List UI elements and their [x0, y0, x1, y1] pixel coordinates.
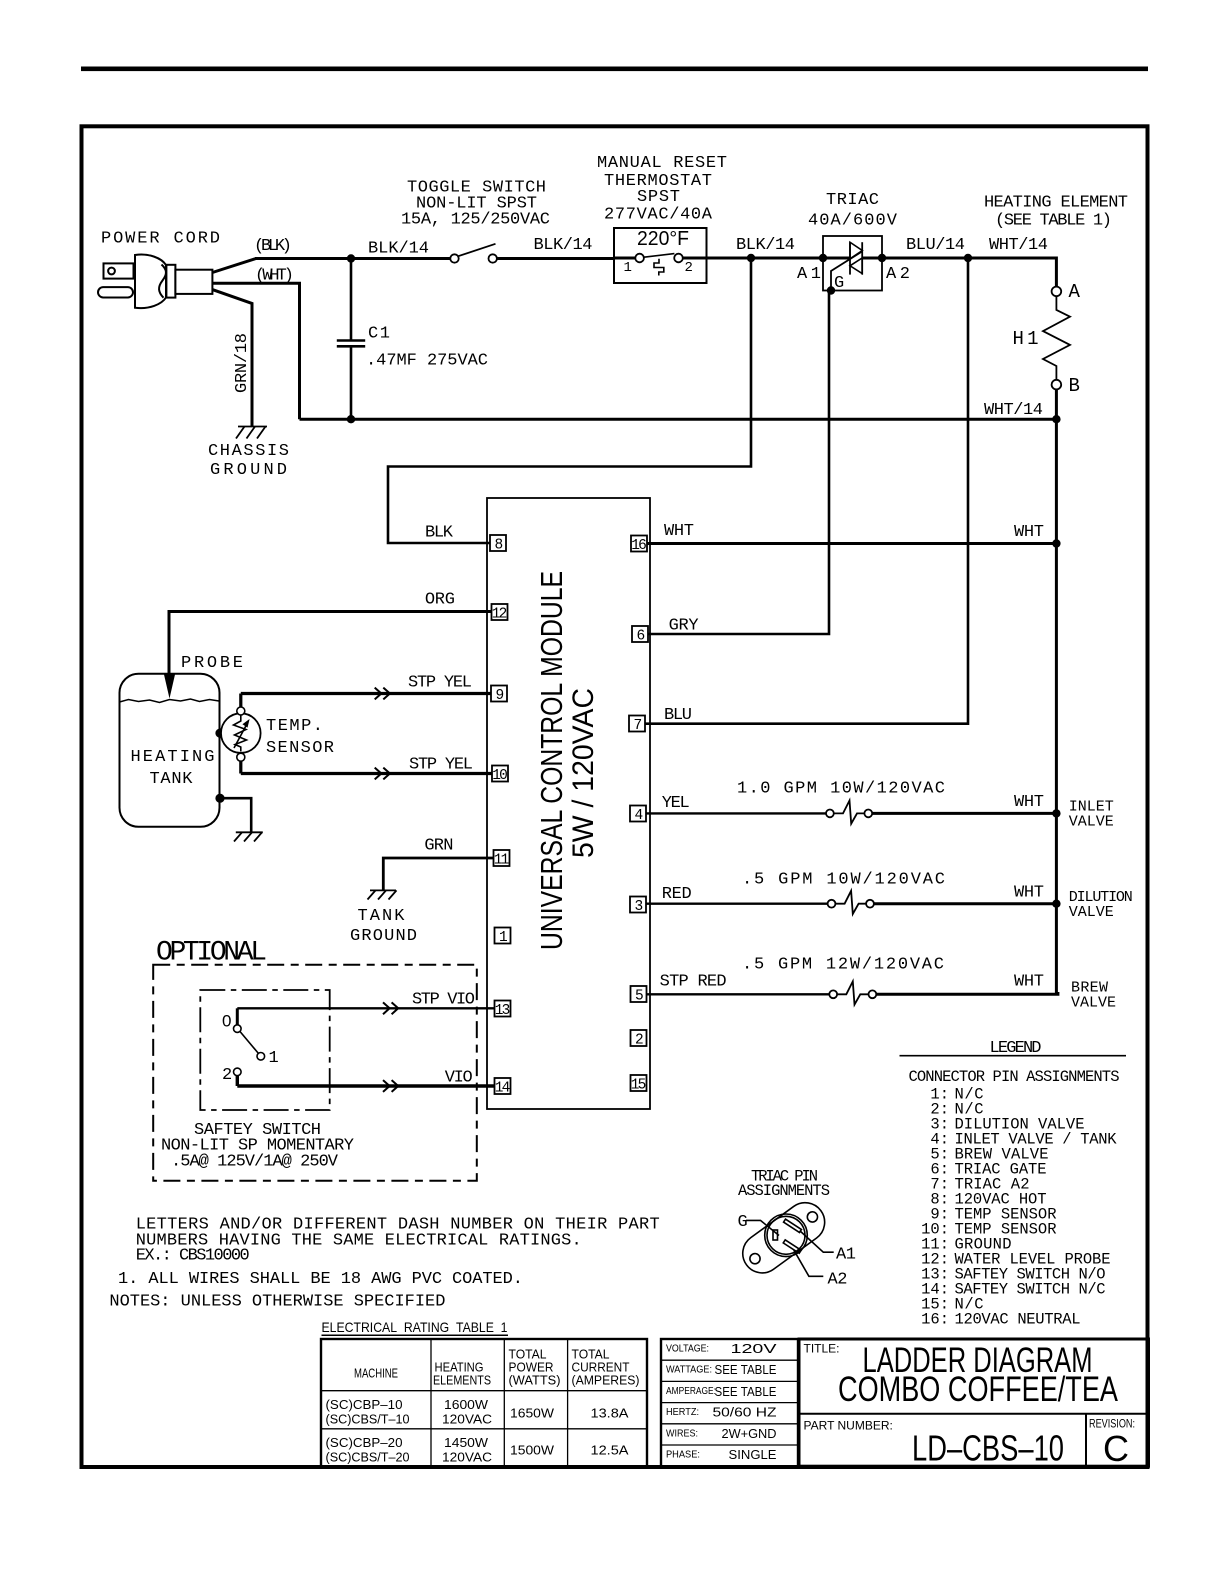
svg-text:16:: 16:: [921, 1311, 949, 1329]
svg-text:A2: A2: [828, 1271, 848, 1290]
svg-text:CHASSIS: CHASSIS: [208, 442, 289, 461]
connector chevrons pin9 wire: [375, 688, 390, 700]
svg-text:GROUND: GROUND: [350, 927, 417, 946]
junction neutral inlet: [1052, 809, 1060, 817]
svg-text:50/60 HZ: 50/60 HZ: [713, 1405, 777, 1420]
wire GRN to pin 11: [383, 858, 494, 890]
svg-text:GRN: GRN: [424, 837, 453, 856]
svg-text:WHT/14: WHT/14: [989, 236, 1048, 255]
connector chevrons pin10 wire: [375, 768, 390, 780]
svg-text:NOTES: UNLESS OTHERWISE SPECIF: NOTES: UNLESS OTHERWISE SPECIFIED: [109, 1293, 445, 1312]
svg-text:(AMPERES): (AMPERES): [572, 1373, 640, 1388]
svg-text:STP YEL: STP YEL: [408, 674, 472, 693]
wire RED pin 3 to dilution valve: [646, 903, 828, 905]
svg-text:1: 1: [624, 260, 632, 276]
svg-text:STP RED: STP RED: [660, 973, 727, 992]
svg-text:3: 3: [635, 899, 644, 915]
wire BLU pin 7 to A2: [645, 258, 968, 724]
wire neutral vertical: [1055, 419, 1058, 994]
svg-text:4: 4: [635, 808, 644, 824]
junction tank temp sensor: [215, 729, 224, 738]
svg-text:16: 16: [631, 538, 647, 554]
pin 1: [495, 928, 511, 944]
svg-text:.5 GPM 10W/120VAC: .5 GPM 10W/120VAC: [742, 871, 945, 890]
wire BLK to toggle switch: [255, 257, 451, 260]
svg-text:GRN/18: GRN/18: [233, 333, 252, 393]
svg-text:WHT: WHT: [1014, 973, 1044, 992]
svg-text:PHASE:: PHASE:: [666, 1449, 700, 1461]
svg-text:12: 12: [492, 607, 508, 623]
svg-text:BLU/14: BLU/14: [906, 236, 965, 255]
svg-text:BLK/14: BLK/14: [736, 236, 795, 255]
wire YEL pin 4 to inlet valve: [646, 812, 826, 814]
pin 7: [629, 716, 645, 732]
title block: [799, 1339, 1149, 1466]
pin 9: [491, 686, 507, 702]
svg-text:VALVE: VALVE: [1069, 814, 1114, 831]
junction triac gate: [827, 286, 835, 294]
svg-text:G: G: [738, 1213, 748, 1232]
svg-text:(WHT): (WHT): [255, 267, 294, 286]
triac Q1: [823, 236, 882, 291]
svg-text:9: 9: [496, 688, 505, 704]
svg-text:B: B: [1069, 375, 1080, 397]
svg-text:7: 7: [634, 718, 643, 734]
wire 120VAC hot to pin 8: [388, 258, 751, 543]
svg-text:5W / 120VAC: 5W / 120VAC: [567, 688, 600, 858]
wire WHT dilution valve to neutral: [874, 902, 1057, 905]
wire VIO to pin 14: [237, 1084, 494, 1087]
svg-text:MANUAL RESET: MANUAL RESET: [597, 154, 727, 173]
svg-text:VOLTAGE:: VOLTAGE:: [666, 1343, 709, 1355]
svg-text:(SC)CBS/T–20: (SC)CBS/T–20: [326, 1450, 410, 1465]
legend pin list: [921, 1086, 1117, 1329]
svg-text:277VAC/40A: 277VAC/40A: [604, 206, 713, 225]
svg-text:.5 GPM 12W/120VAC: .5 GPM 12W/120VAC: [742, 956, 944, 975]
svg-text:15: 15: [631, 1078, 647, 1094]
pin 16: [631, 536, 647, 552]
legend underline: [900, 1055, 1127, 1057]
svg-text:SEE TABLE: SEE TABLE: [715, 1384, 777, 1399]
svg-text:.5A@ 125V/1A@ 250V: .5A@ 125V/1A@ 250V: [171, 1153, 339, 1172]
svg-text:120V: 120V: [731, 1341, 777, 1356]
svg-text:2W+GND: 2W+GND: [722, 1426, 777, 1441]
svg-text:TANK: TANK: [358, 907, 406, 926]
wire element B to neutral: [1055, 390, 1058, 420]
svg-text:13: 13: [495, 1003, 511, 1019]
svg-text:1. ALL WIRES SHALL BE 18 AWG P: 1. ALL WIRES SHALL BE 18 AWG PVC COATED.: [118, 1270, 523, 1289]
svg-text:VALVE: VALVE: [1069, 904, 1114, 921]
svg-text:8: 8: [495, 538, 504, 554]
svg-text:6: 6: [637, 629, 646, 645]
svg-text:PROBE: PROBE: [181, 654, 243, 673]
wire BLK from plug: [212, 259, 256, 273]
wire WHT brew valve to neutral: [876, 992, 1058, 994]
svg-text:1: 1: [499, 930, 508, 946]
svg-text:120VAC NEUTRAL: 120VAC NEUTRAL: [955, 1311, 1081, 1329]
svg-text:WIRES:: WIRES:: [666, 1427, 698, 1439]
svg-text:40A/600V: 40A/600V: [808, 212, 898, 231]
svg-text:11: 11: [494, 853, 510, 869]
pin 5: [631, 986, 647, 1002]
svg-text:14: 14: [495, 1081, 511, 1097]
junction BLU tap: [964, 254, 972, 262]
svg-text:1500W: 1500W: [510, 1443, 555, 1458]
svg-text:13.8A: 13.8A: [591, 1406, 629, 1421]
svg-text:0: 0: [222, 1012, 231, 1031]
svg-text:CONNECTOR PIN ASSIGNMENTS: CONNECTOR PIN ASSIGNMENTS: [909, 1068, 1120, 1086]
triac package TO-3: [735, 1195, 834, 1281]
pin 10: [492, 766, 508, 782]
svg-text:.47MF 275VAC: .47MF 275VAC: [366, 352, 488, 371]
svg-text:WHT: WHT: [664, 522, 694, 541]
wire STP RED pin 5 to brew valve: [647, 993, 830, 995]
svg-text:ORG: ORG: [425, 591, 455, 610]
op-amp U1 universal control module: [487, 498, 650, 1109]
inlet valve L1: [826, 801, 872, 824]
svg-text:WHT: WHT: [1014, 523, 1044, 542]
wire GRY pin 6 to triac gate: [648, 291, 829, 635]
dilution valve L2: [828, 891, 874, 914]
tank earth ground symbol: [234, 832, 263, 841]
svg-text:A: A: [1069, 281, 1081, 303]
probe arrow: [164, 675, 175, 699]
junction C1 top: [347, 254, 355, 262]
wire BLK/14 switch to thermostat: [497, 257, 614, 260]
junction neutral pin16: [1052, 539, 1060, 547]
svg-text:WHT/14: WHT/14: [984, 401, 1043, 420]
wire tank earth: [220, 798, 251, 832]
svg-text:VIO: VIO: [445, 1069, 473, 1088]
svg-text:120VAC: 120VAC: [442, 1412, 492, 1427]
safety switch S2: [234, 1008, 265, 1086]
svg-text:120VAC: 120VAC: [442, 1450, 492, 1465]
svg-text:ASSIGNMENTS: ASSIGNMENTS: [738, 1182, 830, 1200]
wire neutral horizontal: [300, 418, 1057, 421]
pin 12: [492, 604, 508, 620]
svg-text:COMBO COFFEE/TEA: COMBO COFFEE/TEA: [838, 1369, 1118, 1409]
svg-text:(WATTS): (WATTS): [509, 1373, 561, 1388]
svg-text:SPST: SPST: [637, 188, 680, 207]
svg-text:HERTZ:: HERTZ:: [666, 1406, 699, 1418]
capacitor C1: [337, 259, 365, 420]
chassis ground symbol: [236, 427, 267, 439]
svg-text:2: 2: [685, 260, 693, 276]
wire WHT inlet valve to neutral: [872, 812, 1056, 815]
connector chevrons pin14 wire: [383, 1080, 398, 1092]
svg-text:STP VIO: STP VIO: [412, 991, 475, 1010]
svg-text:TITLE:: TITLE:: [804, 1342, 840, 1356]
svg-text:BLK: BLK: [425, 524, 454, 543]
wire STP VIO to pin 13: [237, 1007, 494, 1009]
pin 6: [632, 626, 648, 642]
pin 13: [495, 1001, 511, 1017]
svg-text:POWER CORD: POWER CORD: [101, 230, 220, 249]
svg-text:A1: A1: [836, 1246, 856, 1265]
pin 4: [630, 806, 646, 822]
water line: [120, 699, 220, 703]
svg-text:SEE TABLE: SEE TABLE: [715, 1362, 777, 1377]
svg-text:C: C: [1103, 1428, 1129, 1469]
junction neutral dilution: [1052, 900, 1060, 908]
pin 2: [631, 1030, 647, 1046]
svg-text:C1: C1: [368, 325, 390, 344]
tank ground symbol: [368, 890, 397, 899]
svg-text:BLU: BLU: [664, 706, 692, 725]
pin 11: [494, 850, 510, 866]
terminal B: [1052, 380, 1062, 390]
svg-text:BLK/14: BLK/14: [534, 236, 593, 255]
svg-text:(SEE TABLE 1): (SEE TABLE 1): [995, 212, 1112, 231]
power cord plug P1: [98, 255, 212, 309]
wire GRN from plug: [212, 290, 252, 427]
svg-text:5: 5: [635, 989, 644, 1005]
heating element H1: [1043, 296, 1070, 379]
svg-text:1.0 GPM 10W/120VAC: 1.0 GPM 10W/120VAC: [737, 780, 945, 799]
svg-text:2: 2: [222, 1066, 232, 1085]
wire WHT from plug: [212, 283, 299, 419]
svg-text:EX.: CBS10000: EX.: CBS10000: [136, 1247, 250, 1266]
svg-text:1600W: 1600W: [444, 1397, 489, 1412]
junction element B neutral: [1052, 415, 1060, 423]
svg-text:TANK: TANK: [150, 770, 194, 789]
svg-text:SINGLE: SINGLE: [729, 1447, 777, 1462]
wire WHT pin 16 to neutral: [647, 542, 1056, 545]
brew valve L3: [829, 981, 876, 1004]
svg-text:TEMP.: TEMP.: [266, 717, 323, 736]
svg-text:GRY: GRY: [669, 617, 699, 636]
temp sensor RT1: [221, 707, 261, 761]
svg-text:1450W: 1450W: [444, 1435, 489, 1450]
svg-text:UNIVERSAL CONTROL MODULE: UNIVERSAL CONTROL MODULE: [534, 571, 569, 950]
pin 3: [630, 897, 646, 913]
thermostat TS1: [614, 228, 707, 283]
junction C1 bottom: [347, 415, 355, 423]
svg-text:WATTAGE:: WATTAGE:: [666, 1364, 712, 1376]
svg-text:VALVE: VALVE: [1071, 995, 1116, 1012]
svg-text:WHT: WHT: [1014, 793, 1044, 812]
svg-text:10: 10: [492, 768, 508, 784]
svg-text:ELEMENTS: ELEMENTS: [433, 1373, 491, 1388]
svg-text:BLK/14: BLK/14: [368, 240, 429, 259]
wire BLK/14 thermostat to triac: [707, 257, 823, 260]
svg-text:RED: RED: [662, 885, 692, 904]
svg-text:2: 2: [635, 1033, 644, 1049]
svg-text:SENSOR: SENSOR: [266, 739, 334, 758]
svg-text:OPTIONAL: OPTIONAL: [156, 938, 267, 969]
svg-text:12.5A: 12.5A: [591, 1443, 629, 1458]
svg-text:(SC)CBP–10: (SC)CBP–10: [326, 1397, 403, 1412]
svg-text:MACHINE: MACHINE: [354, 1366, 398, 1381]
spec table: [661, 1339, 798, 1466]
svg-text:STP YEL: STP YEL: [409, 756, 473, 775]
junction node to control module hot: [747, 254, 755, 262]
wire STP YEL to pin 10: [241, 761, 492, 774]
svg-text:1650W: 1650W: [510, 1406, 555, 1421]
junction tank bottom: [215, 794, 224, 803]
terminal A: [1052, 287, 1062, 297]
svg-text:YEL: YEL: [662, 794, 690, 813]
safety switch dash-dot box: [200, 990, 329, 1110]
heating tank T1: [120, 674, 220, 827]
svg-text:(SC)CBP–20: (SC)CBP–20: [326, 1435, 403, 1450]
svg-text:G: G: [834, 274, 844, 293]
connector chevrons pin13 wire: [383, 1002, 398, 1014]
svg-text:AMPERAGE:: AMPERAGE:: [666, 1385, 716, 1397]
pin 8: [490, 535, 506, 551]
pin 15: [631, 1075, 647, 1091]
svg-text:TRIAC: TRIAC: [826, 191, 879, 210]
svg-text:WHT: WHT: [1014, 884, 1044, 903]
svg-text:220°F: 220°F: [637, 228, 689, 250]
svg-text:PART NUMBER:: PART NUMBER:: [804, 1419, 893, 1433]
pin 14: [495, 1078, 511, 1094]
junction A1: [819, 254, 827, 262]
svg-text:(SC)CBS/T–10: (SC)CBS/T–10: [326, 1412, 410, 1427]
svg-text:LD–CBS–10: LD–CBS–10: [912, 1428, 1064, 1469]
svg-text:1: 1: [269, 1049, 279, 1068]
svg-text:(BLK): (BLK): [254, 237, 292, 256]
svg-text:15A, 125/250VAC: 15A, 125/250VAC: [401, 211, 550, 230]
junction A2: [878, 254, 886, 262]
wire ORG to pin 12: [169, 612, 492, 674]
svg-text:ELECTRICAL RATING TABLE 1: ELECTRICAL RATING TABLE 1: [322, 1319, 508, 1335]
toggle switch S1: [450, 244, 497, 263]
optional dashed box: [153, 965, 477, 1181]
wire STP YEL to pin 9: [241, 694, 491, 708]
electrical rating table 1: [321, 1339, 647, 1466]
svg-text:HEATING: HEATING: [131, 748, 215, 767]
wire A2 to heating element: [882, 258, 1056, 287]
svg-text:HEATING ELEMENT: HEATING ELEMENT: [984, 194, 1128, 213]
